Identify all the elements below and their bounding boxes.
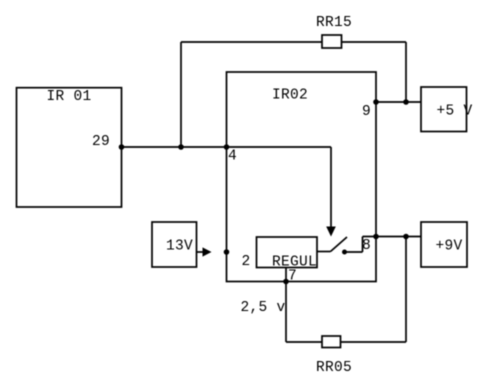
wire bottom right of RR05 xyxy=(341,341,407,343)
IC U1 "IR 01" box xyxy=(17,88,122,207)
wire switch pivot stub xyxy=(317,251,331,253)
IC U2 "IR02" box xyxy=(227,72,377,282)
svg-text:2,5 v: 2,5 v xyxy=(241,300,286,316)
arrowhead 13V into pin2 xyxy=(203,247,212,256)
wire top feedback left of RR15 xyxy=(181,41,322,43)
wire branch up from node A xyxy=(180,42,182,147)
source block "13V" box xyxy=(152,222,197,267)
svg-text:IR02: IR02 xyxy=(272,88,308,104)
wire bottom up to +9V net xyxy=(405,237,407,343)
junction node +9V net xyxy=(403,234,409,240)
switch contact dot xyxy=(342,250,347,255)
resistor RR15 xyxy=(322,35,342,48)
switch S1 blade xyxy=(331,237,348,252)
svg-text:9: 9 xyxy=(362,104,371,120)
wire 13V output xyxy=(197,251,206,253)
wire pin29 to pin4 xyxy=(122,146,227,148)
junction node pin8 xyxy=(373,234,379,240)
wire top feedback down to +5V net xyxy=(405,42,407,102)
wire switch contact up xyxy=(362,237,364,253)
junction node pin29 xyxy=(119,144,125,150)
junction node pin4 xyxy=(224,144,230,150)
svg-text:RR05: RR05 xyxy=(316,360,352,376)
wire pin4 into IR02 xyxy=(227,146,332,148)
arrowhead into switch xyxy=(326,227,336,237)
junction node pin9 xyxy=(373,99,379,105)
svg-text:4: 4 xyxy=(228,149,237,165)
svg-text:RR15: RR15 xyxy=(316,15,352,31)
supply output block "+5 V" box xyxy=(421,87,467,132)
wire pin7 stub from REGUL xyxy=(285,268,287,282)
svg-text:+5 V: +5 V xyxy=(437,104,473,120)
wire pin7 down xyxy=(285,282,287,343)
wire top feedback right of RR15 xyxy=(342,41,407,43)
svg-text:7: 7 xyxy=(288,269,297,285)
junction node A (feedback tap) xyxy=(178,144,184,150)
wire bottom left of RR05 xyxy=(286,341,322,343)
wire switch contact stub xyxy=(346,251,363,253)
junction node pin7 xyxy=(283,279,289,285)
regulator block "REGUL" box xyxy=(257,237,318,268)
svg-text:29: 29 xyxy=(92,134,110,150)
junction node pin2 xyxy=(224,249,230,255)
wire pin8 to +9V box xyxy=(363,236,422,238)
resistor RR05 xyxy=(322,336,341,348)
svg-text:13V: 13V xyxy=(166,239,193,255)
svg-text:+9V: +9V xyxy=(436,239,463,255)
supply output block "+9V" box xyxy=(421,222,467,267)
svg-text:IR 01: IR 01 xyxy=(47,89,92,105)
wire pin9 to +5V box xyxy=(376,101,421,103)
svg-text:2: 2 xyxy=(242,254,251,270)
svg-text:8: 8 xyxy=(362,238,371,254)
junction node +5V net xyxy=(403,99,409,105)
wire internal vertical to switch xyxy=(330,147,332,227)
